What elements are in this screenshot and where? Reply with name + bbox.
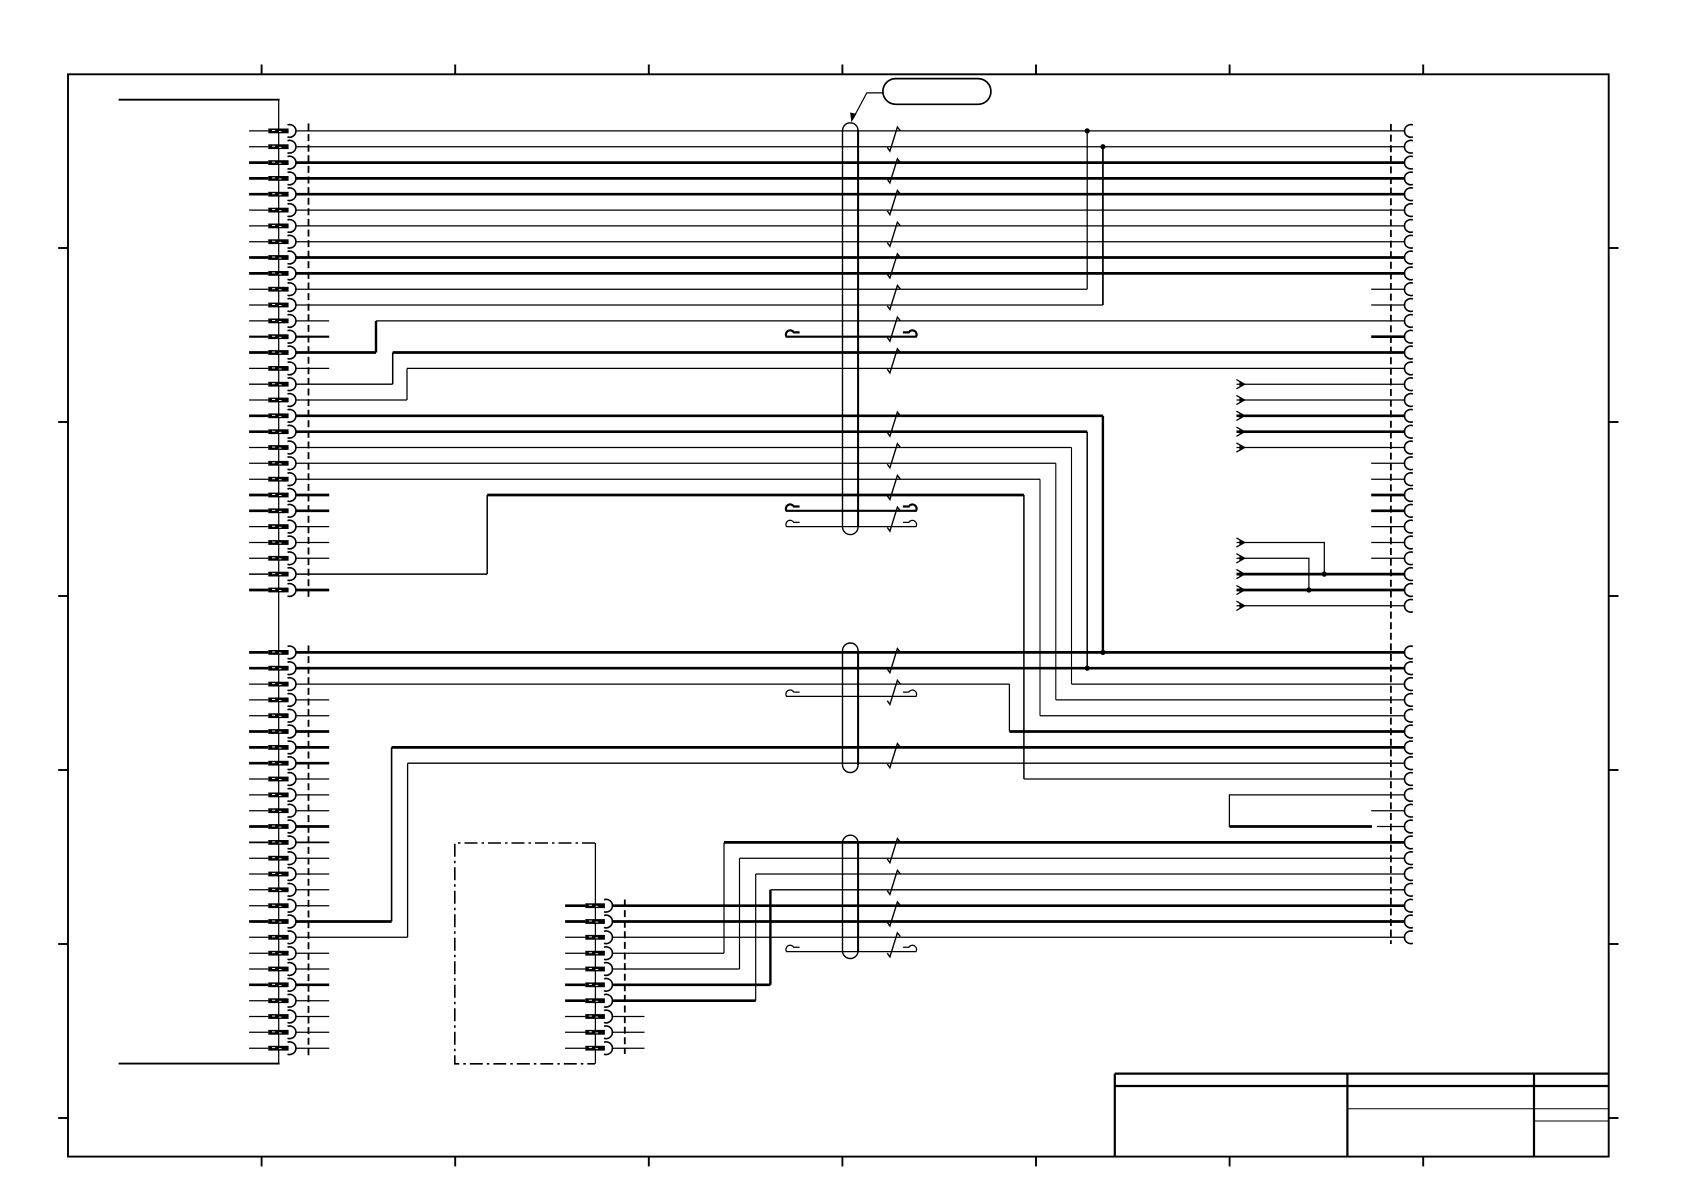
harness bracket wire bottom bbox=[119, 1063, 280, 1065]
wire stub J2.26 bbox=[296, 1047, 329, 1049]
wire row13 to P1 bbox=[376, 320, 1405, 322]
left connector J2 pin 17 bbox=[249, 905, 268, 907]
wire riser x724 bbox=[723, 842, 725, 953]
wire J1.17 to jog bbox=[296, 383, 393, 385]
left connector J1 pin 14 bbox=[249, 336, 268, 338]
left connector J1 pin 27 bbox=[249, 542, 268, 544]
left connector J1 pin 7 bbox=[249, 225, 268, 227]
right connector P1 pin row 42 bbox=[1404, 804, 1412, 817]
wire arrow row 21 to P1 bbox=[1237, 447, 1406, 449]
wire riser x770 bbox=[769, 890, 771, 985]
left connector J2 pin 16 bbox=[249, 889, 268, 891]
twisted pair symbol at y=424 bbox=[887, 412, 900, 436]
wire riser J1.12 to net2 bbox=[1102, 147, 1104, 305]
left connector J1 pin 15 bbox=[249, 351, 268, 354]
inline connector J3 pin 3 bbox=[565, 936, 585, 938]
wire drop riser x1087 bbox=[1086, 432, 1088, 669]
wire J1.23 feeder bbox=[296, 478, 1040, 480]
wire stub J2.22 bbox=[296, 983, 329, 986]
wire stub J2.14 bbox=[296, 857, 329, 859]
right connector P1 pin row 15 bbox=[1404, 346, 1412, 359]
wire riser x391 bbox=[391, 747, 393, 921]
right connector P1 pin row 29 bbox=[1404, 568, 1412, 581]
left connector J1 pin 30 bbox=[249, 589, 268, 592]
wire arrow row 31 to P1 bbox=[1237, 605, 1406, 607]
wire arrow row 18 to P1 bbox=[1237, 399, 1406, 401]
right connector P1 pin row 40 bbox=[1404, 773, 1412, 786]
shield drain wire cable W2 bbox=[786, 690, 917, 696]
left connector J1 pin 19 bbox=[249, 414, 268, 417]
title block row line right cell bbox=[1534, 1120, 1609, 1122]
inline connector J3 pin 7 bbox=[565, 999, 585, 1002]
cable W3 right side emphasis bbox=[857, 843, 859, 951]
right connector P1 pin row 19 bbox=[1404, 409, 1412, 422]
left connector J1 pin 20 bbox=[249, 430, 268, 433]
left connector J1 pin 10 bbox=[249, 272, 268, 275]
inline connector J3 pin 2 bbox=[565, 920, 585, 923]
right connector P1 pin row 14 bbox=[1404, 330, 1412, 343]
left connector J2 pin 15 bbox=[249, 873, 268, 875]
wire riser x407b bbox=[407, 763, 409, 937]
wire stub J1.13 bbox=[296, 320, 329, 322]
wire riser x739 bbox=[739, 858, 741, 969]
twisted pair symbol at y=329 bbox=[887, 317, 900, 341]
left connector J1 pin 22 bbox=[249, 462, 268, 464]
wire drop riser x1009 bbox=[1008, 684, 1010, 731]
junction dot lower net1 bbox=[1100, 650, 1105, 655]
wire arrow row 19 to P1 bbox=[1237, 414, 1406, 417]
twisted pair symbol at y=139 bbox=[887, 127, 900, 151]
right connector P1 pin row 31 bbox=[1404, 599, 1412, 612]
right connector P1 pin row 44 bbox=[1404, 836, 1412, 849]
right connector P1 pin row 37 bbox=[1404, 725, 1412, 738]
cable shield oval W3 bbox=[843, 835, 859, 958]
left connector J2 pin 3 bbox=[249, 683, 268, 685]
left connector J1 pin 18 bbox=[249, 399, 268, 401]
left connector J1 pin 8 bbox=[249, 241, 268, 243]
wire arrow row 20 to P1 bbox=[1237, 430, 1406, 433]
wire stub J1.24 bbox=[296, 494, 329, 497]
wire J1.1 to P1 row 1 bbox=[296, 130, 1405, 132]
twisted pair symbol at y=914 bbox=[887, 902, 900, 926]
junction dot row29 bbox=[1322, 572, 1327, 577]
left connector J2 pin 1 bbox=[249, 651, 268, 654]
left connector J1 pin 28 bbox=[249, 557, 268, 559]
off-page arrow row 17 bbox=[1236, 380, 1244, 389]
wire stub P1 row 24 bbox=[1371, 494, 1405, 497]
left connector J2 pin 10 bbox=[249, 794, 268, 796]
right connector P1 pin row 22 bbox=[1404, 457, 1412, 470]
wire jog riser x376 bbox=[375, 321, 377, 353]
wire stub J2.13 bbox=[296, 841, 329, 843]
cable shield oval W1 bbox=[843, 123, 859, 535]
wire row15 to P1 bbox=[393, 351, 1405, 354]
wire drop riser x1071 bbox=[1071, 448, 1073, 685]
wire stub P1 row b11 bbox=[1371, 810, 1405, 812]
twisted pair symbol at y=944 bbox=[887, 933, 900, 957]
shield drain wire cable W3 bbox=[786, 945, 917, 951]
twisted pair symbol at y=455 bbox=[887, 444, 900, 468]
wire stub J1.25 bbox=[296, 509, 329, 512]
right connector P1 pin row 43 bbox=[1404, 820, 1412, 833]
left connector J1 mating face dashed line bbox=[308, 124, 310, 601]
wire stub J2.15 bbox=[296, 873, 329, 875]
right connector P1 pin row 2 bbox=[1404, 140, 1412, 153]
left connector J1 pin 23 bbox=[249, 478, 268, 480]
wire J1.29 to jog bbox=[296, 573, 487, 575]
wire stub P1 row 22 bbox=[1371, 462, 1405, 464]
wire row b14 to P1 bbox=[740, 857, 1406, 859]
left connector J1 pin 5 bbox=[249, 193, 268, 196]
right connector P1 pin row 26 bbox=[1404, 520, 1412, 533]
leader line from capsule to cable W1 bbox=[853, 93, 883, 119]
twisted pair symbol at y=297 bbox=[887, 285, 900, 309]
wire J3.2 to P1 bbox=[612, 920, 1405, 923]
right connector P1 pin row 3 bbox=[1404, 156, 1412, 169]
wire drop riser x1055 bbox=[1055, 463, 1057, 700]
shield drain wire row 26 bbox=[786, 520, 917, 526]
left connector J2 pin 18 bbox=[249, 920, 268, 923]
wire stub J1.26 bbox=[296, 526, 329, 528]
left connector J2 pin 9 bbox=[249, 778, 268, 780]
wire arrow row 30 to P1 bbox=[1237, 589, 1406, 592]
cable label capsule bbox=[883, 79, 991, 105]
left connector J2 pin 26 bbox=[249, 1047, 268, 1049]
twisted pair symbol at y=202 bbox=[887, 191, 900, 215]
wire J1.18 to jog bbox=[296, 399, 407, 401]
wire J1.12 feeder bbox=[296, 304, 1103, 306]
wire J1.3 to P1 row 3 bbox=[296, 161, 1405, 164]
wire J1.8 to P1 row 8 bbox=[296, 241, 1405, 243]
wire J3.4 feeder bbox=[612, 952, 724, 954]
wire stub J2.10 bbox=[296, 794, 329, 796]
wire J2.19 to riser bbox=[296, 936, 408, 938]
right connector P1 mating face dashed line bbox=[1390, 124, 1392, 944]
twisted pair symbol at y=882 bbox=[887, 870, 900, 894]
wire riser x755 bbox=[755, 874, 757, 1001]
inline connector J3 pin 5 bbox=[565, 968, 585, 970]
right connector P1 pin row 25 bbox=[1404, 504, 1412, 517]
right connector P1 pin row 35 bbox=[1404, 694, 1412, 707]
junction dot net2 bbox=[1100, 144, 1105, 149]
wire stub J2.25 bbox=[296, 1031, 329, 1033]
wire J1.7 to P1 row 7 bbox=[296, 225, 1405, 227]
off-page arrow row 27 bbox=[1236, 538, 1244, 547]
left connector J2 pin 6 bbox=[249, 730, 268, 733]
right connector P1 pin row 12 bbox=[1404, 299, 1412, 312]
right connector P1 pin row 41 bbox=[1404, 789, 1412, 802]
left connector J2 pin 4 bbox=[249, 699, 268, 701]
wire arrow row 29 to P1 bbox=[1237, 573, 1406, 576]
junction dot net1 bbox=[1085, 128, 1090, 133]
wire stub J2.21 bbox=[296, 968, 329, 970]
off-page arrow row 21 bbox=[1236, 443, 1244, 452]
wire stub J3.8 bbox=[612, 1016, 645, 1018]
wire row b13 to P1 bbox=[724, 841, 1405, 844]
twisted pair symbol at y=692 bbox=[887, 680, 900, 704]
twisted pair symbol at y=266 bbox=[887, 254, 900, 278]
left connector J2 pin 5 bbox=[249, 715, 268, 717]
right connector P1 pin row 23 bbox=[1404, 473, 1412, 486]
wire J3.7 feeder bbox=[612, 999, 756, 1002]
wire stub P1 row 23 bbox=[1371, 478, 1405, 480]
wire stub J2.16 bbox=[296, 889, 329, 891]
right connector P1 pin row 10 bbox=[1404, 267, 1412, 280]
wire J1.20 feeder bbox=[296, 430, 1087, 433]
wire stub J2.8 bbox=[296, 762, 329, 765]
wire lower row 3 to P1 bbox=[1072, 683, 1406, 685]
junction dot lower net2 bbox=[1085, 666, 1090, 671]
wire stub J2.23 bbox=[296, 1000, 329, 1002]
wire stub J1.28 bbox=[296, 557, 329, 559]
off-page arrow row 28 bbox=[1236, 554, 1244, 563]
left connector J2 pin 21 bbox=[249, 968, 268, 970]
left connector J1 pin 4 bbox=[249, 177, 268, 180]
twisted pair symbol at y=234 bbox=[887, 222, 900, 246]
wire row b16 to P1 bbox=[770, 889, 1405, 891]
left connector J1 pin 17 bbox=[249, 383, 268, 385]
twisted pair symbol at y=360 bbox=[887, 349, 900, 373]
right connector P1 pin row 32 bbox=[1404, 646, 1412, 659]
left connector J2 pin 2 bbox=[249, 667, 268, 670]
wire J1.19 feeder bbox=[296, 414, 1103, 417]
wire jog riser x487 bbox=[486, 495, 488, 574]
right connector P1 pin row 18 bbox=[1404, 394, 1412, 407]
left connector J1 pin 29 bbox=[249, 573, 268, 575]
right connector P1 pin row 27 bbox=[1404, 536, 1412, 549]
wire P1 row b10 U-link bbox=[1229, 795, 1405, 827]
cable W2 right side emphasis bbox=[857, 651, 859, 766]
device boundary dash-dot box bbox=[455, 843, 595, 1064]
left connector J1 pin 13 bbox=[249, 320, 268, 322]
wire row b7 to P1 bbox=[392, 746, 1406, 749]
right connector P1 pin row 7 bbox=[1404, 220, 1412, 233]
wire J2.18 to riser bbox=[296, 920, 392, 923]
off-page arrow row 29 bbox=[1236, 570, 1244, 579]
left connector J2 pin 12 bbox=[249, 825, 268, 828]
wire drop riser x1102 bbox=[1102, 416, 1104, 653]
frame tick marks left/right bbox=[58, 247, 68, 249]
harness bracket wire top bbox=[119, 99, 280, 101]
right connector P1 pin row 6 bbox=[1404, 204, 1412, 217]
wire J1.22 feeder bbox=[296, 462, 1056, 464]
wire stub P1 row 28 bbox=[1371, 557, 1405, 559]
wire stub J2.9 bbox=[296, 778, 329, 780]
title block divider 1 bbox=[1346, 1074, 1348, 1157]
wire stub J3.9 bbox=[612, 1031, 645, 1033]
inline connector J3 pin 1 bbox=[565, 904, 585, 907]
shield drain wire row 25 bbox=[786, 504, 917, 510]
wire stub P1 row b12 bbox=[1377, 826, 1405, 828]
wire J1.6 to P1 row 6 bbox=[296, 209, 1405, 211]
wire J3.3 to P1 bbox=[612, 936, 1405, 938]
cable shield oval W2 bbox=[843, 643, 859, 773]
right connector P1 pin row 13 bbox=[1404, 315, 1412, 328]
left connector J1 pin 2 bbox=[249, 146, 268, 148]
wire jog riser x407 bbox=[406, 368, 408, 400]
wire row b8 to P1 bbox=[408, 762, 1406, 764]
off-page arrow row 31 bbox=[1236, 601, 1244, 610]
wire arrow row 17 to P1 bbox=[1237, 383, 1406, 385]
right connector P1 pin row 36 bbox=[1404, 709, 1412, 722]
wire J1.10 to P1 row 10 bbox=[296, 272, 1405, 275]
left connector J2 pin 19 bbox=[249, 936, 268, 938]
right connector P1 pin row 48 bbox=[1404, 899, 1412, 912]
left connector J2 pin 7 bbox=[249, 746, 268, 749]
wire stub J1.27 bbox=[296, 542, 329, 544]
right connector P1 pin row 33 bbox=[1404, 662, 1412, 675]
left connector J2 pin 22 bbox=[249, 983, 268, 986]
right connector P1 pin row 16 bbox=[1404, 362, 1412, 375]
wire stub J2.5 bbox=[296, 715, 329, 717]
wire stub P1 row 27 bbox=[1371, 542, 1405, 544]
wire J2.3 feeder bbox=[296, 683, 1010, 685]
wire row16 to P1 bbox=[407, 367, 1405, 369]
wire J1.9 to P1 row 9 bbox=[296, 256, 1405, 259]
wire stub P1 row 25 bbox=[1371, 509, 1405, 512]
wire J3.6 feeder bbox=[612, 983, 771, 986]
left connector J1 pin 26 bbox=[249, 526, 268, 528]
twisted pair symbol at y=755 bbox=[887, 744, 900, 768]
left connector J1 pin 12 bbox=[249, 304, 268, 306]
wire J1.2 to P1 row 2 bbox=[296, 146, 1405, 148]
right connector P1 pin row 45 bbox=[1404, 852, 1412, 865]
twisted pair symbol at y=487 bbox=[887, 475, 900, 499]
leader arrowhead bbox=[850, 113, 856, 123]
right connector P1 pin row 1 bbox=[1404, 125, 1412, 138]
wire row b15 to P1 bbox=[756, 873, 1405, 875]
inline connector J3 pin 8 bbox=[565, 1016, 585, 1018]
title block row line middle cell bbox=[1347, 1108, 1608, 1110]
wire stub J2.17 bbox=[296, 905, 329, 907]
title block divider 2 bbox=[1533, 1074, 1535, 1157]
left connector J1 pin 11 bbox=[249, 288, 268, 290]
off-page arrow row 30 bbox=[1236, 585, 1244, 594]
right connector P1 pin row 38 bbox=[1404, 741, 1412, 754]
twisted pair symbol at y=519 bbox=[887, 507, 900, 531]
left connector J1 pin 25 bbox=[249, 509, 268, 512]
left connector J2 pin 23 bbox=[249, 1000, 268, 1002]
right connector P1 pin row 17 bbox=[1404, 378, 1412, 391]
right connector P1 pin row 11 bbox=[1404, 283, 1412, 296]
wire stub J2.24 bbox=[296, 1016, 329, 1018]
wire J2.2 to P1 bbox=[296, 667, 1405, 670]
left connector J2 pin 14 bbox=[249, 857, 268, 859]
wire jog riser x392 bbox=[392, 353, 394, 385]
wire stub P1 row 12 bbox=[1371, 304, 1405, 306]
right connector P1 pin row 49 bbox=[1404, 915, 1412, 928]
left connector J2 pin 11 bbox=[249, 810, 268, 812]
wire J3.5 feeder bbox=[612, 968, 740, 970]
wire arrow row 27 jog bbox=[1237, 543, 1325, 575]
wire stub J2.20 bbox=[296, 952, 329, 954]
off-page arrow row 18 bbox=[1236, 395, 1244, 404]
right connector P1 pin row 47 bbox=[1404, 883, 1412, 896]
wire stub P1 row 11 bbox=[1371, 288, 1405, 290]
inline connector J3 pin 4 bbox=[565, 952, 585, 954]
right connector P1 pin row 21 bbox=[1404, 441, 1412, 454]
inline connector J3 spine / box right edge bbox=[594, 843, 596, 1064]
right connector P1 pin row 30 bbox=[1404, 584, 1412, 597]
shield drain wire row 14 bbox=[786, 330, 917, 336]
inline connector J3 pin 10 bbox=[565, 1047, 585, 1049]
inline connector J3 mating face dashed line bbox=[624, 900, 626, 1055]
wire lower row 4 to P1 bbox=[1056, 699, 1405, 701]
inline connector J3 pin 9 bbox=[565, 1031, 585, 1033]
left connector J1 spine bbox=[278, 100, 280, 1064]
right connector P1 pin row 34 bbox=[1404, 678, 1412, 691]
title block outline bbox=[1115, 1074, 1609, 1157]
twisted pair symbol at y=850 bbox=[887, 839, 900, 863]
wire stub J2.7 bbox=[296, 746, 329, 749]
wire stub J2.6 bbox=[296, 730, 329, 733]
right connector P1 pin row 28 bbox=[1404, 552, 1412, 565]
left connector J1 pin 6 bbox=[249, 209, 268, 211]
right connector P1 pin row 39 bbox=[1404, 757, 1412, 770]
left connector J1 pin 24 bbox=[249, 494, 268, 497]
wire stub J1.16 bbox=[296, 367, 329, 369]
wire J1.15 to jog bbox=[296, 351, 376, 354]
wire J1.11 feeder bbox=[296, 288, 1087, 290]
left connector J1 pin 9 bbox=[249, 256, 268, 259]
wire stub J3.10 bbox=[612, 1047, 645, 1049]
wire lower row 5 to P1 bbox=[1040, 715, 1405, 717]
right connector P1 pin row 24 bbox=[1404, 489, 1412, 502]
wire J1.21 feeder bbox=[296, 447, 1072, 449]
left connector J2 pin 24 bbox=[249, 1016, 268, 1018]
wire J1.4 to P1 row 4 bbox=[296, 177, 1405, 180]
twisted pair symbol at y=660 bbox=[887, 649, 900, 673]
right connector P1 pin row 50 bbox=[1404, 931, 1412, 944]
left connector J1 pin 3 bbox=[249, 161, 268, 164]
off-page arrow row 19 bbox=[1236, 411, 1244, 420]
wire lower row 9 to P1 bbox=[1024, 778, 1405, 780]
twisted pair symbol at y=170 bbox=[887, 159, 900, 183]
wire stub J2.11 bbox=[296, 810, 329, 812]
left connector J2 pin 25 bbox=[249, 1031, 268, 1033]
wire stub J2.12 bbox=[296, 825, 329, 828]
wire drop riser x1040 bbox=[1039, 479, 1041, 716]
right connector P1 pin row 9 bbox=[1404, 251, 1412, 264]
left connector J1 pin 1 bbox=[249, 130, 268, 132]
wire arrow row 28 jog bbox=[1237, 558, 1309, 590]
frame tick marks top/bottom bbox=[261, 65, 263, 75]
wire J2.1 to P1 bbox=[296, 651, 1405, 654]
off-page arrow row 20 bbox=[1236, 427, 1244, 436]
inline connector J3 pin 6 bbox=[565, 983, 585, 986]
left connector J2 pin 8 bbox=[249, 762, 268, 765]
junction dot row30 bbox=[1306, 587, 1311, 592]
left connector J2 pin 20 bbox=[249, 952, 268, 954]
wire stub P1 row 26 bbox=[1371, 526, 1405, 528]
left connector J1 pin 16 bbox=[249, 367, 268, 369]
wire J1.5 to P1 row 5 bbox=[296, 193, 1405, 196]
right connector P1 pin row 8 bbox=[1404, 235, 1412, 248]
left connector J2 mating face dashed line bbox=[308, 646, 310, 1056]
wire stub J1.30 bbox=[296, 589, 329, 592]
left connector J2 pin 13 bbox=[249, 841, 268, 843]
left connector J1 pin 21 bbox=[249, 447, 268, 449]
wire stub J2.4 bbox=[296, 699, 329, 701]
right connector P1 pin row 46 bbox=[1404, 868, 1412, 881]
wire row24 trunk bbox=[487, 494, 1024, 497]
right connector P1 pin row 20 bbox=[1404, 425, 1412, 438]
wire stub J1.14 bbox=[296, 336, 329, 338]
wire stub P1 row 14 bbox=[1371, 335, 1405, 338]
wire drop riser x1023 bbox=[1023, 495, 1025, 779]
wire J3.1 to P1 bbox=[612, 904, 1405, 907]
cable W1 right side emphasis bbox=[857, 130, 859, 527]
